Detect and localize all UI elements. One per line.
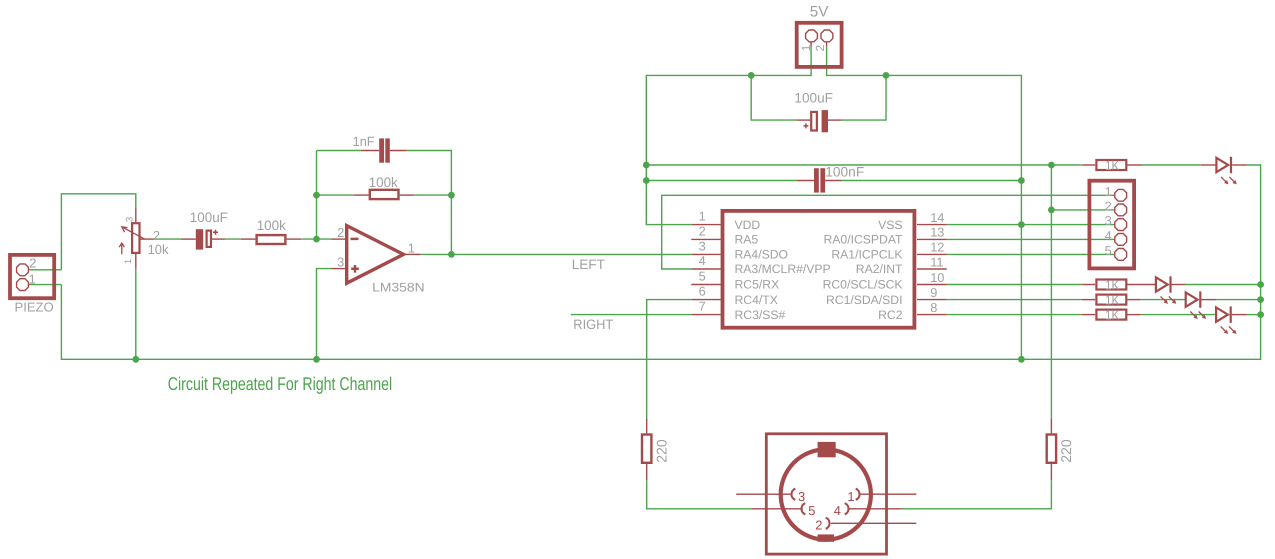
svg-text:3: 3 — [699, 238, 706, 253]
svg-text:4: 4 — [834, 503, 841, 518]
svg-text:10k: 10k — [148, 242, 169, 257]
svg-text:7: 7 — [699, 299, 706, 314]
svg-text:RC4/TX: RC4/TX — [735, 293, 778, 307]
svg-text:1K: 1K — [1105, 277, 1119, 292]
svg-text:12: 12 — [930, 240, 944, 255]
svg-text:2: 2 — [699, 223, 706, 238]
svg-text:2: 2 — [815, 518, 822, 533]
svg-text:1: 1 — [123, 259, 134, 264]
svg-text:11: 11 — [930, 254, 943, 269]
svg-text:1: 1 — [1105, 184, 1112, 199]
svg-text:1: 1 — [699, 209, 706, 224]
svg-text:13: 13 — [930, 225, 944, 240]
svg-text:Circuit Repeated For Right Cha: Circuit Repeated For Right Channel — [168, 373, 392, 394]
svg-text:1K: 1K — [1105, 292, 1119, 307]
svg-text:9: 9 — [930, 285, 937, 300]
svg-text:RC5/RX: RC5/RX — [735, 278, 780, 292]
svg-text:220: 220 — [1058, 439, 1074, 463]
svg-text:VDD: VDD — [735, 218, 761, 232]
svg-text:14: 14 — [930, 210, 944, 225]
svg-text:1: 1 — [847, 489, 854, 504]
svg-text:10: 10 — [930, 270, 944, 285]
svg-text:100uF: 100uF — [794, 90, 833, 105]
svg-text:RC3/SS#: RC3/SS# — [735, 308, 786, 322]
svg-text:RA1/ICPCLK: RA1/ICPCLK — [831, 248, 902, 262]
svg-text:4: 4 — [699, 253, 706, 268]
svg-text:1nF: 1nF — [353, 134, 375, 149]
svg-text:3: 3 — [798, 489, 805, 504]
svg-text:5: 5 — [1105, 243, 1112, 258]
svg-text:4: 4 — [1105, 228, 1112, 243]
svg-text:LM358N: LM358N — [372, 281, 424, 295]
svg-text:RA2/INT: RA2/INT — [856, 262, 903, 276]
svg-text:PIEZO: PIEZO — [15, 299, 54, 314]
svg-text:3: 3 — [1105, 213, 1112, 228]
svg-text:1: 1 — [29, 272, 36, 287]
svg-text:100nF: 100nF — [825, 165, 864, 180]
svg-text:VSS: VSS — [878, 218, 902, 232]
svg-text:1K: 1K — [1105, 158, 1119, 173]
svg-text:RA4/SDO: RA4/SDO — [735, 248, 789, 262]
svg-text:2: 2 — [337, 225, 344, 240]
svg-text:1: 1 — [799, 45, 813, 52]
svg-text:2: 2 — [813, 45, 827, 52]
svg-text:5: 5 — [699, 269, 706, 284]
svg-text:RC0/SCL/SCK: RC0/SCL/SCK — [823, 278, 903, 292]
svg-text:5V: 5V — [810, 4, 829, 21]
svg-text:5: 5 — [808, 503, 815, 518]
svg-text:100uF: 100uF — [190, 210, 228, 225]
svg-text:3: 3 — [124, 217, 135, 222]
svg-text:2: 2 — [29, 256, 36, 271]
svg-text:LEFT: LEFT — [572, 257, 605, 272]
svg-text:RA3/MCLR#/VPP: RA3/MCLR#/VPP — [735, 262, 831, 276]
svg-text:RIGHT: RIGHT — [573, 317, 613, 332]
svg-text:RC1/SDA/SDI: RC1/SDA/SDI — [826, 293, 903, 307]
svg-text:2: 2 — [153, 228, 160, 243]
svg-text:RA5: RA5 — [735, 233, 759, 247]
svg-text:100k: 100k — [257, 218, 286, 233]
svg-text:6: 6 — [699, 284, 706, 299]
svg-text:220: 220 — [653, 439, 669, 463]
svg-text:2: 2 — [1105, 198, 1112, 213]
svg-text:8: 8 — [930, 300, 937, 315]
svg-text:RC2: RC2 — [878, 308, 903, 322]
svg-text:1: 1 — [408, 240, 415, 255]
svg-text:3: 3 — [337, 255, 344, 270]
svg-text:RA0/ICSPDAT: RA0/ICSPDAT — [823, 233, 903, 247]
svg-text:100k: 100k — [369, 175, 398, 190]
svg-text:1K: 1K — [1105, 307, 1119, 322]
